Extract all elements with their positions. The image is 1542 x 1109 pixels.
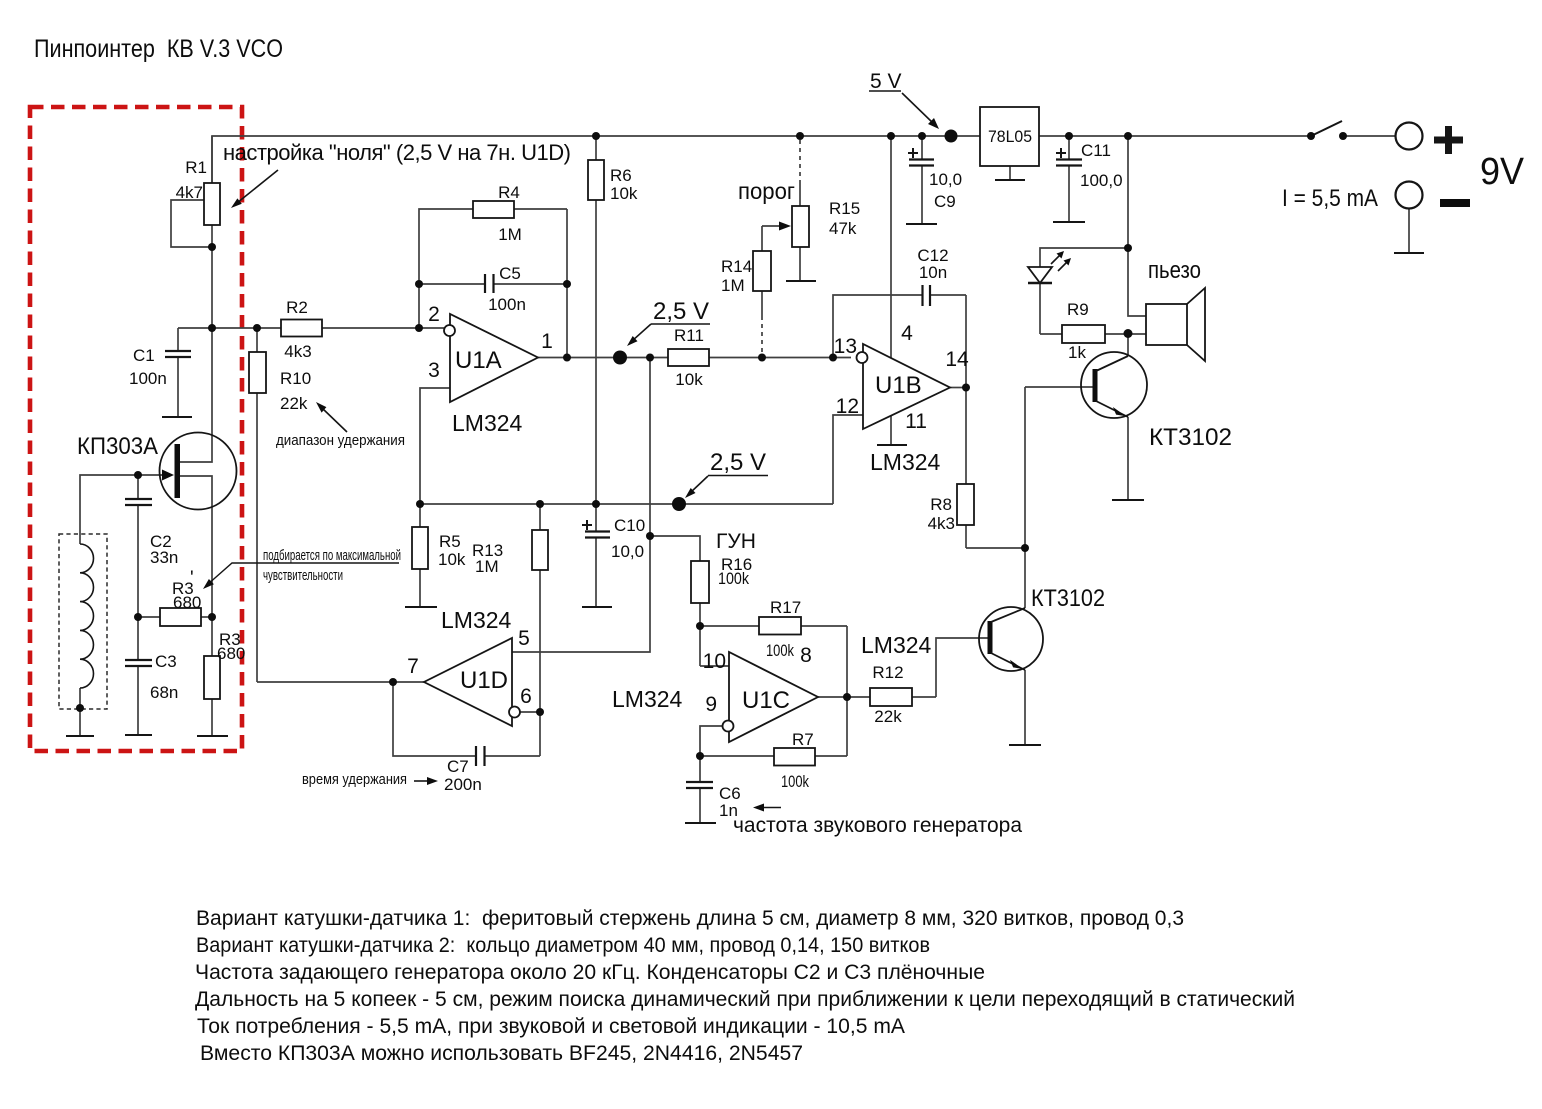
ground coil <box>66 735 94 737</box>
svg-text:11: 11 <box>905 410 927 433</box>
annotation диапазон удержания arrow <box>322 408 347 432</box>
svg-text:10k: 10k <box>438 550 466 569</box>
ground C9 <box>906 223 937 225</box>
U1B inverting input bubble pin13 <box>857 352 868 363</box>
node R9/piezo/collector <box>1124 329 1133 338</box>
svg-text:время удержания: время удержания <box>302 771 407 788</box>
svg-text:2,5 V: 2,5 V <box>653 298 709 325</box>
svg-text:5 V: 5 V <box>870 70 902 93</box>
wire coil bottom to ground <box>79 688 81 736</box>
wire R3' right lead <box>201 616 212 618</box>
resistor R15 47k (pot порог) <box>792 206 809 247</box>
svg-text:Ток потребления - 5,5 mA, при: Ток потребления - 5,5 mA, при звуковой и… <box>197 1015 905 1038</box>
svg-text:100n: 100n <box>488 295 526 314</box>
node R16 branch corner <box>646 532 654 540</box>
underline 2,5V 1 <box>651 323 710 325</box>
wire R17 axis <box>700 625 847 627</box>
node U1B output <box>962 384 970 392</box>
capacitor C3 68n <box>125 660 152 666</box>
capacitor C7 200n <box>476 746 485 766</box>
svg-text:R1: R1 <box>185 158 207 177</box>
svg-text:R7: R7 <box>792 730 814 749</box>
svg-text:4k3: 4k3 <box>284 342 311 361</box>
ground C10 <box>582 606 612 608</box>
wire LED to R9 <box>1039 283 1041 334</box>
svg-text:U1A: U1A <box>455 347 502 374</box>
piezo speaker body <box>1146 304 1187 345</box>
node 2,5V big dot on rail <box>672 497 686 511</box>
wire R12 axis <box>847 696 936 698</box>
wire R7 axis <box>700 755 847 757</box>
svg-text:R8: R8 <box>930 495 952 514</box>
minus symbol bold <box>1440 199 1470 207</box>
wire U1A pin3 <box>420 388 450 607</box>
node gate/C2 junction <box>134 471 142 479</box>
wire U1B output / R8 axis <box>965 295 967 548</box>
underline 5V <box>869 90 901 92</box>
svg-text:68n: 68n <box>150 683 178 702</box>
resistor R1 4k7 (preset pot) <box>204 183 220 225</box>
wire R3 axis <box>211 617 213 736</box>
svg-text:LM324: LM324 <box>441 607 512 633</box>
svg-text:8: 8 <box>800 644 812 667</box>
resistor R5 10k <box>412 527 428 569</box>
capacitor C12 10n <box>923 285 931 306</box>
wire JFET drain to input node <box>180 328 212 462</box>
svg-text:R11: R11 <box>674 326 704 345</box>
resistor R3' 680 <box>160 608 201 626</box>
resistor R2 4k3 <box>281 320 322 337</box>
svg-text:4k3: 4k3 <box>928 514 955 533</box>
svg-text:LM324: LM324 <box>870 449 941 475</box>
resistor R3 680 <box>204 656 220 699</box>
resistor R13 1M <box>532 530 548 570</box>
node LED branch <box>1124 244 1132 252</box>
svg-text:C11: C11 <box>1081 141 1111 160</box>
wire R8 bottom link <box>966 547 1025 549</box>
svg-text:2,5 V: 2,5 V <box>710 449 766 476</box>
svg-text:пьезо: пьезо <box>1148 257 1201 284</box>
JFET КП303А circle <box>160 433 237 510</box>
resistor R17 100k <box>759 617 801 635</box>
node U1D pin6/C7 <box>536 708 544 716</box>
resistor R4 1M <box>473 201 514 218</box>
svg-text:R17: R17 <box>770 598 801 617</box>
Q1 emitter arrow <box>1113 407 1126 416</box>
svg-text:100k: 100k <box>718 569 749 588</box>
svg-text:1: 1 <box>541 330 553 353</box>
capacitor C10 10,0 electrolytic <box>585 532 610 538</box>
wire input line C1/R2 <box>178 327 444 329</box>
svg-text:47k: 47k <box>829 219 857 238</box>
wire 5V to piezo top <box>1128 136 1146 316</box>
capacitor C2 33n <box>125 499 152 505</box>
wire R14 wiper arm <box>761 226 763 316</box>
node pin13 loop tap <box>829 354 837 362</box>
svg-text:настройка "ноля" (2,5 V на 7н.: настройка "ноля" (2,5 V на 7н. U1D) <box>223 140 571 165</box>
wire 78L05 ground lead <box>1009 166 1011 180</box>
wire R1 body axis <box>211 136 213 328</box>
svg-text:ГУН: ГУН <box>716 530 756 553</box>
capacitor C1 100n <box>165 351 191 357</box>
wire R9 axis <box>1040 333 1146 335</box>
resistor R9 1k <box>1062 325 1105 343</box>
svg-text:C9: C9 <box>934 192 956 211</box>
LED VD1 <box>1028 267 1052 283</box>
node R3' left <box>134 613 142 621</box>
coil dashed enclosure <box>59 534 107 709</box>
wire C5 left lead <box>419 283 484 285</box>
svg-text:КТ3102: КТ3102 <box>1031 585 1105 612</box>
wire Q2 emitter <box>1024 670 1026 745</box>
node rail junctions <box>592 132 600 140</box>
wire C6 top lead <box>699 756 701 782</box>
resistor R8 4k3 <box>957 484 974 525</box>
annotation подбирается pointer <box>207 563 399 585</box>
ground C3 <box>125 734 152 736</box>
svg-text:Вариант катушки-датчика 2: ко: Вариант катушки-датчика 2: кольцо диамет… <box>196 934 930 957</box>
svg-text:22k: 22k <box>874 707 902 726</box>
sensor block red dashed outline <box>30 107 242 751</box>
resistor R7 100k <box>774 748 815 766</box>
C9 plus sign <box>908 148 918 158</box>
svg-text:': ' <box>190 568 194 589</box>
svg-text:Дальность на 5 копеек - 5 см,: Дальность на 5 копеек - 5 см, режим поис… <box>195 988 1295 1011</box>
svg-text:10n: 10n <box>919 263 947 282</box>
svg-text:Вариант катушки-датчика 1: фе: Вариант катушки-датчика 1: феритовый сте… <box>196 907 1184 930</box>
node C5 taps <box>415 280 423 288</box>
LED light arrows <box>1051 251 1071 271</box>
svg-text:LM324: LM324 <box>612 686 683 712</box>
resistor R12 22k <box>870 688 912 706</box>
wire C7 left leg <box>393 682 476 756</box>
regulator 78L05 box <box>980 107 1039 166</box>
sensor coil L1 <box>80 544 94 688</box>
svg-text:КТ3102: КТ3102 <box>1149 424 1232 451</box>
ground U1B pin11 <box>877 444 907 446</box>
Q2 emitter diagonal <box>991 653 1025 670</box>
JFET gate bar <box>175 444 181 498</box>
annotation настройка arrow <box>237 170 278 203</box>
node U1C output <box>843 693 851 701</box>
wire R2 to U1A feedback vertical left <box>419 209 567 328</box>
wire Q2 collector to Q1 base <box>1024 387 1026 608</box>
node pin9/R7/C6 <box>696 752 704 760</box>
node R16 takeoff on output line <box>646 354 654 362</box>
wire U1B pin12 <box>833 415 863 504</box>
svg-text:чувствительности: чувствительности <box>263 567 343 584</box>
svg-text:I = 5,5 mA: I = 5,5 mA <box>1282 185 1378 212</box>
wire R13/C7 link <box>485 755 541 757</box>
wire R1 wiper link <box>171 200 212 247</box>
svg-text:100k: 100k <box>766 641 794 660</box>
wire R16 feed <box>650 536 700 666</box>
svg-text:C10: C10 <box>614 516 645 535</box>
svg-text:U1B: U1B <box>875 372 922 399</box>
svg-text:R9: R9 <box>1067 300 1089 319</box>
svg-text:Пинпоинтер КВ V.3 VCO: Пинпоинтер КВ V.3 VCO <box>34 35 283 63</box>
svg-text:4: 4 <box>901 322 913 345</box>
battery plus terminal <box>1396 123 1423 150</box>
plus symbol bold <box>1434 126 1463 154</box>
svg-text:10,0: 10,0 <box>929 170 962 189</box>
piezo horn <box>1187 288 1205 361</box>
svg-text:R10: R10 <box>280 369 311 388</box>
annotation частота arrow <box>762 807 781 809</box>
wire R12 to Q2 base <box>936 638 988 697</box>
wire R16 to U1C pin10 <box>700 665 729 667</box>
wire U1B pin11 ground lead <box>890 415 892 445</box>
svg-text:1M: 1M <box>475 557 499 576</box>
wire Q1 emitter ground lead <box>1127 417 1129 500</box>
annotation 5V arrow <box>902 93 934 124</box>
svg-text:R15: R15 <box>829 199 860 218</box>
Q1 emitter diagonal <box>1096 401 1128 417</box>
node U1A output feedback tap <box>563 354 571 362</box>
node input line junctions <box>208 324 216 332</box>
annotation порог wiper arrowhead <box>779 222 791 231</box>
node 2,5V big dot at U1A output <box>613 351 627 365</box>
ground C6 <box>685 822 716 824</box>
ground 78L05 <box>995 179 1025 181</box>
wire C1 top lead <box>177 328 179 351</box>
node 2.5V rail junctions <box>416 500 424 508</box>
svg-text:14: 14 <box>945 348 969 371</box>
wire JFET gate lead <box>80 475 163 544</box>
wire R10 branch <box>256 328 258 682</box>
wire 9V/5V top rail <box>212 136 1396 183</box>
wire C6 bottom lead <box>699 788 701 823</box>
C10 plus sign <box>582 520 592 530</box>
svg-text:2: 2 <box>428 303 440 326</box>
node R16/R17/pin10 <box>696 622 704 630</box>
svg-text:9: 9 <box>705 693 717 716</box>
wire R15 axis <box>799 182 801 281</box>
wire feedback vertical right <box>566 209 568 358</box>
wire C2 to R3' node <box>137 506 139 660</box>
svg-text:R14: R14 <box>721 257 752 276</box>
annotation 2,5V arrow 2 <box>690 476 708 493</box>
wire R17 right vertical <box>846 626 848 697</box>
wire R7 right vertical <box>846 697 848 756</box>
Q2 collector diagonal <box>991 608 1025 622</box>
resistor R10 22k <box>249 352 266 393</box>
ground Q2 emitter <box>1009 744 1041 746</box>
svg-text:7: 7 <box>407 655 419 678</box>
svg-text:680: 680 <box>217 644 245 663</box>
svg-text:C7: C7 <box>447 757 469 776</box>
underline 2,5V 2 <box>708 475 768 477</box>
annotation время удержания arrow <box>414 780 429 782</box>
wire U1B pin4 supply <box>890 136 892 358</box>
resistor R14 1M <box>753 251 771 291</box>
transistor Q2 KT3102 circle <box>979 607 1043 671</box>
svg-text:LM324: LM324 <box>861 632 932 658</box>
Q2 emitter arrow <box>1010 660 1023 669</box>
wire U1B pin13 feedback loop <box>833 295 922 358</box>
svg-text:R4: R4 <box>498 183 520 202</box>
svg-text:Вместо КП303А можно использова: Вместо КП303А можно использовать BF245, … <box>200 1042 803 1065</box>
svg-text:R12: R12 <box>872 663 903 682</box>
U1D inverting input bubble pin6 <box>509 707 520 718</box>
node R1 bottom junction <box>208 243 216 251</box>
svg-text:33n: 33n <box>150 548 178 567</box>
capacitor C5 100n <box>485 274 494 293</box>
wire R14 dashed bottom <box>761 316 763 357</box>
svg-text:порог: порог <box>738 178 795 204</box>
wire U1D pin6 <box>520 711 540 713</box>
wire порог dashed top <box>799 140 801 182</box>
svg-text:3: 3 <box>428 359 440 382</box>
resistor R6 10k <box>588 160 604 200</box>
svg-text:R2: R2 <box>286 298 308 317</box>
switch SA1 <box>1311 121 1342 136</box>
wire C3 bottom lead <box>137 666 139 735</box>
svg-text:подбирается по максимальной: подбирается по максимальной <box>263 547 401 564</box>
op-amp U1A <box>450 314 538 402</box>
node coil bottom <box>76 704 84 712</box>
C11 plus sign <box>1056 148 1066 158</box>
svg-text:частота звукового генератора: частота звукового генератора <box>733 814 1022 837</box>
Q1 base bar <box>1093 369 1098 402</box>
svg-text:4k7: 4k7 <box>176 183 203 202</box>
node 5V big dot <box>945 130 958 143</box>
wire JFET source down <box>180 476 212 617</box>
svg-text:U1C: U1C <box>742 687 790 714</box>
svg-text:U1D: U1D <box>460 667 508 694</box>
svg-text:6: 6 <box>520 685 532 708</box>
op-amp U1B <box>863 344 950 429</box>
svg-text:1M: 1M <box>721 276 745 295</box>
wire C9 top lead <box>921 136 923 159</box>
svg-text:10: 10 <box>703 650 726 673</box>
wire R6 top feed <box>595 136 597 531</box>
capacitor C11 100,0 electrolytic <box>1056 160 1082 166</box>
Q2 base bar <box>988 621 993 654</box>
svg-text:10k: 10k <box>610 184 638 203</box>
svg-text:LM324: LM324 <box>452 410 523 436</box>
U1C inverting input bubble pin9 <box>723 721 734 732</box>
wire U1C pin9 <box>700 726 722 756</box>
svg-text:1M: 1M <box>498 225 522 244</box>
svg-text:9V: 9V <box>1480 151 1525 193</box>
capacitor C9 10,0 electrolytic <box>909 160 934 166</box>
wire C2 branch <box>137 475 139 499</box>
wire C11 top lead <box>1068 136 1070 159</box>
wire C1 bottom lead <box>177 357 179 417</box>
svg-text:C1: C1 <box>133 346 155 365</box>
battery minus terminal <box>1396 182 1423 209</box>
svg-text:1k: 1k <box>1068 343 1086 362</box>
svg-text:680: 680 <box>173 593 201 612</box>
wire R3' left lead <box>138 616 160 618</box>
op-amp U1D (points left) <box>424 638 512 726</box>
svg-text:КП303А: КП303А <box>77 433 158 460</box>
annotation 2,5V arrow 1 <box>632 324 651 341</box>
svg-text:22k: 22k <box>280 394 308 413</box>
wire U1D pin7 output <box>257 681 424 683</box>
svg-text:13: 13 <box>834 335 857 358</box>
U1A inverting input bubble pin2 <box>444 325 455 336</box>
JFET gate arrow <box>162 470 174 481</box>
svg-text:C5: C5 <box>499 264 521 283</box>
resistor R16 100k <box>691 561 709 603</box>
svg-text:12: 12 <box>836 395 859 418</box>
svg-text:C3: C3 <box>155 652 177 671</box>
svg-text:Частота задающего генератора о: Частота задающего генератора около 20 кГ… <box>195 961 985 984</box>
wire LED branch <box>1040 248 1128 267</box>
node U1D pin7/C7 <box>389 678 397 686</box>
svg-text:5: 5 <box>518 627 530 650</box>
wire Q1 collector <box>1127 333 1129 356</box>
svg-text:R6: R6 <box>610 166 632 185</box>
wire R13 axis <box>539 504 541 756</box>
svg-text:диапазон удержания: диапазон удержания <box>276 432 405 449</box>
svg-text:78L05: 78L05 <box>988 127 1032 146</box>
op-amp U1C <box>729 652 818 742</box>
wire C5 right lead <box>494 283 567 285</box>
wire C10 lower lead <box>595 538 597 607</box>
ground R15 <box>786 280 816 282</box>
ground Q1 emitter <box>1112 499 1144 501</box>
svg-text:10,0: 10,0 <box>611 542 644 561</box>
wire U1C output <box>818 696 847 698</box>
ground R5 <box>405 606 437 608</box>
wire C9 bottom lead <box>921 166 923 224</box>
capacitor C6 1n <box>686 782 713 788</box>
resistor R11 10k <box>668 349 709 366</box>
battery minus bar <box>1394 252 1424 254</box>
wire battery minus lead <box>1408 209 1410 254</box>
svg-text:200n: 200n <box>444 775 482 794</box>
svg-text:100k: 100k <box>781 772 809 791</box>
svg-text:100,0: 100,0 <box>1080 171 1123 190</box>
Q1 collector diagonal <box>1096 356 1128 371</box>
node R8/Q2 collector/Q1 base <box>1021 544 1029 552</box>
wire U1A out to U1D pin5 <box>512 358 650 653</box>
node R3' right / source <box>208 613 216 621</box>
ground R3 <box>197 735 228 737</box>
ground C11 <box>1053 221 1085 223</box>
svg-text:R5: R5 <box>439 532 461 551</box>
svg-text:100n: 100n <box>129 369 167 388</box>
wire C11 bottom lead <box>1068 166 1070 222</box>
wire 2.5V rail <box>420 503 833 505</box>
svg-text:10k: 10k <box>675 370 703 389</box>
transistor Q1 KT3102 circle <box>1081 352 1147 418</box>
ground C1 <box>162 416 192 418</box>
wire U1A output line <box>538 357 851 359</box>
node R14 on R11 line <box>758 354 766 362</box>
